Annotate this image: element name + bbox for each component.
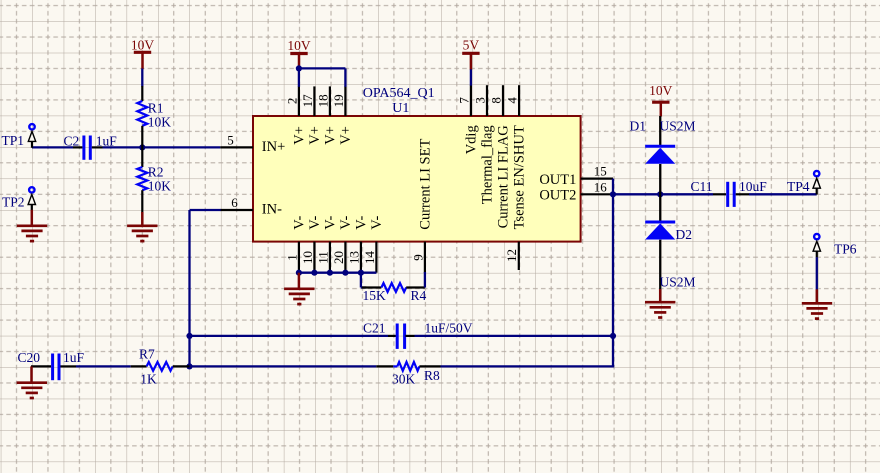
svg-text:D1: D1 <box>630 118 647 133</box>
svg-text:D2: D2 <box>676 227 693 242</box>
pin 5 IN+ <box>220 133 285 155</box>
svg-text:20: 20 <box>331 251 346 264</box>
junction diode column <box>657 191 663 197</box>
svg-text:R8: R8 <box>424 368 440 383</box>
junction V- bus <box>342 270 348 276</box>
svg-text:Thermal_flag: Thermal_flag <box>480 125 496 204</box>
junction OUT2 <box>610 191 616 197</box>
wire 10V to pins 2 and 19 <box>299 68 346 86</box>
svg-text:C21: C21 <box>363 320 386 335</box>
svg-text:V+: V+ <box>323 126 339 145</box>
pin 1 V- <box>284 216 307 273</box>
ground under R2 <box>127 226 157 241</box>
svg-text:10uF: 10uF <box>739 179 767 194</box>
diode D2 US2M <box>645 194 695 289</box>
wire D2 to ground <box>659 289 662 303</box>
resistor R4 15K <box>362 283 427 303</box>
svg-text:TP2: TP2 <box>2 195 25 210</box>
svg-text:V-: V- <box>354 216 370 230</box>
svg-text:V-: V- <box>323 216 339 230</box>
pin 11 V- <box>315 216 338 273</box>
svg-text:15: 15 <box>594 163 607 178</box>
svg-text:15K: 15K <box>363 288 387 303</box>
svg-text:30K: 30K <box>392 372 416 387</box>
wire pin 6 to feedback node <box>190 210 221 366</box>
junction C21/OUT <box>610 333 616 339</box>
svg-text:Tsense EN/SHUT: Tsense EN/SHUT <box>512 125 528 229</box>
svg-text:V+: V+ <box>307 126 323 145</box>
svg-text:1uF: 1uF <box>63 350 85 365</box>
pin 9 Current LI SET <box>410 139 433 273</box>
pin 15 OUT1 <box>539 163 613 188</box>
svg-text:2: 2 <box>284 98 299 105</box>
svg-text:V-: V- <box>292 216 308 230</box>
svg-text:V+: V+ <box>292 126 308 145</box>
svg-text:14: 14 <box>362 251 377 265</box>
test point TP1 <box>2 124 36 148</box>
svg-text:1K: 1K <box>140 372 157 387</box>
svg-text:17: 17 <box>300 94 315 108</box>
svg-text:OPA564_Q1: OPA564_Q1 <box>363 86 435 101</box>
ground under C20 <box>17 383 47 398</box>
svg-text:10K: 10K <box>148 114 172 129</box>
test point TP2 <box>2 187 36 210</box>
capacitor C11 <box>691 179 768 207</box>
junction C21 branch <box>186 333 192 339</box>
svg-text:US2M: US2M <box>660 118 696 133</box>
pin 20 V- <box>331 216 354 273</box>
svg-text:1uF: 1uF <box>96 133 118 148</box>
svg-text:R2: R2 <box>148 164 164 179</box>
capacitor C2 <box>64 133 118 160</box>
junction R7 node <box>186 363 192 369</box>
pin 17 V+ <box>300 86 323 144</box>
svg-text:10K: 10K <box>148 178 172 193</box>
svg-text:R7: R7 <box>139 346 155 361</box>
wire TP2 to ground <box>31 210 34 226</box>
pin 3 Thermal_flag <box>472 85 495 204</box>
svg-text:Current LI FLAG: Current LI FLAG <box>496 125 512 229</box>
junction 10V/pin2 <box>296 65 302 71</box>
wire C2 to pin 5 with R1/R2 tap <box>103 146 221 148</box>
wire C21 to OUT column <box>415 335 614 337</box>
svg-text:C2: C2 <box>64 133 80 148</box>
wire 5V to pin 7 <box>470 69 472 85</box>
wire 10V to R1 <box>141 69 143 87</box>
pin 13 V- <box>346 216 369 273</box>
resistor R2 10K <box>137 147 171 212</box>
svg-text:R4: R4 <box>411 288 427 303</box>
pin 10 V- <box>300 216 323 273</box>
junction at R1/R2 divider <box>139 144 145 150</box>
svg-text:IN-: IN- <box>262 202 282 218</box>
svg-text:11: 11 <box>315 251 330 264</box>
svg-text:5: 5 <box>227 133 234 148</box>
svg-text:TP4: TP4 <box>787 179 810 194</box>
junction V- bus <box>311 270 317 276</box>
svg-text:Current LI SET: Current LI SET <box>418 139 434 230</box>
wire R8 to OUT column <box>441 365 615 367</box>
svg-text:IN+: IN+ <box>262 139 285 155</box>
resistor R8 30K <box>376 362 440 387</box>
pin 14 V- <box>362 216 385 273</box>
svg-text:7: 7 <box>456 97 471 104</box>
svg-text:1uF/50V: 1uF/50V <box>425 320 473 335</box>
wire R2 to ground <box>141 212 144 226</box>
svg-text:18: 18 <box>315 94 330 107</box>
svg-text:U1: U1 <box>392 101 409 116</box>
resistor R1 10K <box>137 86 171 147</box>
capacitor C21 <box>363 320 473 349</box>
junction V- bus <box>296 270 302 276</box>
wire diode column to C11 <box>660 193 713 195</box>
wire C20 to R7 <box>76 365 131 367</box>
svg-text:10V: 10V <box>287 38 311 53</box>
pin 12 Tsense (unconnected) <box>504 242 519 270</box>
svg-text:16: 16 <box>594 179 608 194</box>
ground under D2 <box>645 302 675 317</box>
wire R4 to pin 9 <box>424 272 426 288</box>
pin 6 IN- <box>220 195 282 217</box>
power 10V over D1 <box>649 83 673 117</box>
wire TP6 down <box>816 257 818 289</box>
junction V- bus <box>358 270 364 276</box>
pin 19 V+ <box>331 86 354 144</box>
svg-text:OUT1: OUT1 <box>539 172 576 188</box>
svg-text:US2M: US2M <box>660 275 696 290</box>
svg-text:1: 1 <box>284 254 299 261</box>
svg-text:8: 8 <box>488 97 503 104</box>
wire C20 to ground <box>30 366 33 383</box>
svg-text:3: 3 <box>472 97 487 104</box>
svg-text:4: 4 <box>505 97 520 104</box>
wire C21 branch left <box>190 335 389 337</box>
power 10V over R1 <box>131 38 155 70</box>
svg-text:13: 13 <box>346 251 361 264</box>
pin 18 V+ <box>315 86 338 144</box>
ground under TP2 <box>17 226 47 241</box>
svg-text:TP6: TP6 <box>834 241 857 256</box>
svg-text:5V: 5V <box>463 38 480 53</box>
ground under pin 1 <box>284 289 314 304</box>
svg-text:V-: V- <box>369 216 385 230</box>
wire C11 to TP4 <box>749 193 817 195</box>
IC U1 OPA564_Q1 body <box>253 116 581 242</box>
svg-text:C11: C11 <box>691 179 713 194</box>
diode D1 US2M <box>630 116 696 194</box>
ground under TP6 <box>802 303 832 318</box>
power 10V over pin 2 <box>287 38 311 70</box>
wire ground stub pin 1 <box>298 273 301 289</box>
wire TP6 to ground <box>816 289 819 303</box>
svg-text:12: 12 <box>504 249 519 262</box>
svg-text:19: 19 <box>331 94 346 107</box>
svg-text:V-: V- <box>307 216 323 230</box>
pin 4 Tsense EN/SHUT <box>505 85 528 229</box>
wire OUT2 down to R8 line <box>612 194 614 366</box>
wire pin15 to pin16 <box>612 179 614 195</box>
wire V- bus to ground <box>299 272 377 274</box>
resistor R7 1K <box>131 346 190 386</box>
svg-text:6: 6 <box>231 195 238 210</box>
pin 2 V+ <box>284 86 307 144</box>
wire R7 node to R8 <box>190 365 377 367</box>
svg-text:10V: 10V <box>649 83 673 98</box>
svg-text:10: 10 <box>300 251 315 264</box>
wire IN+ net: TP1 to C2 <box>32 146 73 148</box>
svg-text:C20: C20 <box>18 350 41 365</box>
capacitor C20 <box>18 350 85 380</box>
pin 7 Vdig <box>456 85 479 154</box>
junction V- bus <box>327 270 333 276</box>
test point TP4 <box>787 171 820 195</box>
svg-text:V-: V- <box>338 216 354 230</box>
svg-text:OUT2: OUT2 <box>539 188 576 204</box>
svg-text:9: 9 <box>410 254 425 261</box>
svg-text:R1: R1 <box>148 101 164 116</box>
wire OUT2 to D1/D2 <box>613 193 660 195</box>
svg-text:V+: V+ <box>338 126 354 145</box>
svg-text:10V: 10V <box>131 38 155 53</box>
pin 8 Current LI FLAG <box>488 85 511 228</box>
wire bus drop to R4 <box>361 273 366 288</box>
test point TP6 <box>813 234 857 257</box>
svg-text:TP1: TP1 <box>2 133 25 148</box>
power 5V over pin 7 <box>462 38 479 70</box>
pin 16 OUT2 <box>539 179 613 203</box>
svg-text:Vdig: Vdig <box>464 125 480 154</box>
